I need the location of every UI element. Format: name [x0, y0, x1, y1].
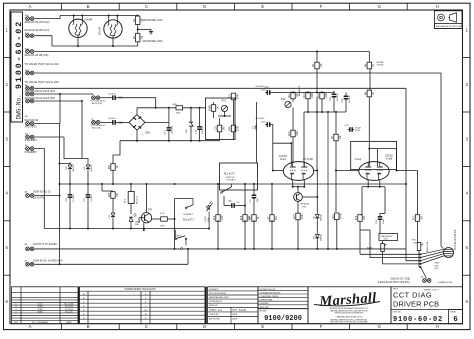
svg-text:RL1∗C1: RL1∗C1: [136, 195, 139, 204]
svg-text:PV1: PV1: [222, 100, 227, 103]
svg-text:H: H: [436, 324, 439, 329]
svg-text:TO VALVE TRAY VA3 & VA5: TO VALVE TRAY VA3 & VA5: [25, 80, 60, 84]
svg-text:22u/50s: 22u/50s: [349, 96, 351, 103]
svg-text:DRAWN: DRAWN: [209, 309, 217, 312]
svg-text:10K: 10K: [421, 215, 423, 220]
svg-text:(H2): (H2): [435, 268, 439, 270]
svg-text:1S-L-BL: 1S-L-BL: [65, 311, 74, 313]
svg-text:MODEL: MODEL: [260, 311, 268, 313]
svg-text:UNSPECIFIED HOLE DATA: UNSPECIFIED HOLE DATA: [124, 288, 156, 291]
svg-text:1N4007: 1N4007: [321, 213, 323, 221]
svg-text:C20: C20: [252, 128, 257, 130]
svg-text:9100-63-02: 9100-63-02: [25, 118, 39, 122]
svg-text:9100-62-02 15: 9100-62-02 15: [33, 190, 51, 194]
svg-text:TR1: TR1: [148, 209, 153, 212]
svg-text:ECC83: ECC83: [385, 155, 393, 157]
svg-text:STANDBY: STANDBY: [25, 138, 38, 142]
svg-text:& 9100-60-02 SHT2 VR3 (H6): & 9100-60-02 SHT2 VR3 (H6): [378, 281, 410, 284]
svg-text:(W): (W): [414, 242, 418, 244]
svg-text:PV2: PV2: [281, 98, 286, 101]
svg-text:ECC# NUMBER: ECC# NUMBER: [32, 322, 48, 324]
svg-text:H: H: [436, 4, 439, 9]
svg-text:SCN (F4): SCN (F4): [33, 195, 44, 199]
svg-text:DATE: DATE: [232, 309, 238, 312]
svg-text:R10: R10: [318, 93, 320, 98]
svg-text:1K: 1K: [373, 64, 375, 67]
svg-text:270K: 270K: [302, 213, 304, 219]
svg-text:E: E: [261, 4, 264, 9]
svg-text:-: -: [131, 133, 132, 136]
svg-text:1N4007: 1N4007: [73, 164, 75, 172]
svg-text:SHT2: SHT2: [435, 263, 441, 265]
svg-text:+35 (G5): +35 (G5): [172, 126, 174, 135]
svg-text:G: G: [378, 324, 381, 329]
svg-text:1N4007: 1N4007: [321, 233, 323, 241]
svg-text:270K: 270K: [237, 125, 239, 131]
svg-text:M: M: [145, 310, 147, 312]
svg-text:RL1∗CT3: RL1∗CT3: [224, 173, 235, 176]
svg-text:R26: R26: [230, 126, 232, 131]
svg-text:© MARSHALL AMPLIFICATION PLC: © MARSHALL AMPLIFICATION PLC: [335, 315, 363, 318]
svg-text:AV10 (F4): AV10 (F4): [92, 102, 102, 105]
svg-text:A.S.: A.S.: [218, 309, 223, 312]
svg-text:10u/50s: 10u/50s: [337, 94, 339, 101]
svg-text:B: B: [87, 4, 90, 9]
svg-text:DRIVER PCB: DRIVER PCB: [393, 300, 439, 309]
svg-text:F: F: [320, 324, 323, 329]
svg-text:DATE: DATE: [232, 318, 238, 321]
svg-text:E: E: [261, 324, 264, 329]
svg-text:1K8: 1K8: [223, 126, 225, 131]
svg-text:100K: 100K: [222, 215, 224, 221]
svg-text:86B6: 86B6: [37, 311, 43, 313]
svg-text:D: D: [203, 4, 206, 9]
svg-text:10u/63s: 10u/63s: [202, 127, 204, 134]
svg-text:1N4007: 1N4007: [91, 164, 93, 172]
svg-text:G: G: [378, 4, 381, 9]
svg-text:R18: R18: [241, 215, 243, 220]
svg-text:SURFACE: SURFACE: [209, 288, 219, 291]
svg-text:R27: R27: [109, 164, 111, 169]
svg-text:STANDBY: STANDBY: [25, 150, 38, 154]
svg-text:9100-62-02 16 RED (F4): 9100-62-02 16 RED (F4): [33, 259, 63, 263]
svg-text:R17: R17: [414, 215, 416, 220]
svg-text:9100-62-02 (G4,F4): 9100-62-02 (G4,F4): [455, 229, 457, 250]
svg-text:PRESENCE: PRESENCE: [381, 236, 394, 238]
svg-text:9100-63-02 AV5 (F4): 9100-63-02 AV5 (F4): [25, 28, 50, 32]
svg-text:ISSUE: ISSUE: [450, 311, 457, 313]
svg-text:REPRODUCED WITHOUT PERMISSION: REPRODUCED WITHOUT PERMISSION: [335, 313, 364, 315]
svg-text:F: F: [320, 4, 323, 9]
svg-text:10K: 10K: [321, 63, 323, 68]
svg-text:DATE: DATE: [232, 313, 238, 316]
svg-text:DB1: DB1: [146, 132, 151, 135]
svg-text:9100-61-02 2B (G5): 9100-61-02 2B (G5): [25, 53, 49, 57]
svg-text:MATERIAL AND SIZE: MATERIAL AND SIZE: [209, 296, 229, 299]
svg-text:V2∗M4: V2∗M4: [99, 26, 102, 35]
svg-text:G: G: [83, 318, 85, 320]
svg-text:15K: 15K: [142, 35, 144, 40]
svg-text:AV1 (G4): AV1 (G4): [92, 127, 101, 130]
svg-text:R18: R18: [230, 94, 232, 99]
svg-text:C: C: [145, 4, 148, 9]
svg-text:MPSA13: MPSA13: [301, 203, 310, 206]
svg-text:R1B: R1B: [435, 265, 440, 267]
svg-text:100K: 100K: [326, 92, 328, 98]
svg-text:1K: 1K: [373, 92, 375, 95]
svg-text:9200 MODEL ONLY: 9200 MODEL ONLY: [143, 20, 164, 22]
svg-text:TO VALVE TRAY VA4 & VA2: TO VALVE TRAY VA4 & VA2: [25, 62, 60, 66]
svg-text:9100-63-02 AV5 (F2): 9100-63-02 AV5 (F2): [25, 20, 50, 24]
svg-text:CCT DIAG: CCT DIAG: [393, 291, 432, 300]
svg-text:10u/50s: 10u/50s: [108, 94, 115, 96]
svg-text:+HT500V: +HT500V: [255, 118, 265, 120]
svg-text:8-6-93: 8-6-93: [239, 309, 247, 312]
svg-text:1K: 1K: [258, 216, 260, 219]
svg-text:B25K (LIN): B25K (LIN): [427, 241, 429, 252]
svg-text:6: 6: [453, 316, 458, 324]
svg-text:470pF: 470pF: [355, 128, 362, 130]
svg-text:BALANCE: BALANCE: [298, 85, 301, 96]
svg-text:100K: 100K: [312, 92, 314, 98]
svg-text:47u/63s: 47u/63s: [73, 195, 75, 202]
svg-text:SCREEN(S) N: SCREEN(S) N: [209, 301, 223, 303]
svg-text:C21: C21: [265, 87, 270, 89]
svg-text:RL1∗CT1: RL1∗CT1: [183, 219, 195, 222]
svg-text:22u/50s: 22u/50s: [108, 118, 115, 120]
svg-text:V1∗M4: V1∗M4: [84, 19, 93, 22]
svg-text:9100-60-02: 9100-60-02: [393, 316, 443, 324]
svg-text:10K: 10K: [117, 192, 119, 197]
svg-text:+30B: +30B: [172, 104, 178, 106]
svg-text:R/A: R/A: [135, 223, 139, 226]
svg-text:ECC83: ECC83: [279, 156, 287, 158]
svg-text:V2∗A: V2∗A: [280, 158, 287, 161]
svg-text:100K: 100K: [297, 130, 299, 136]
svg-text:OXIDE: OXIDE: [377, 65, 384, 67]
svg-text:THIRD ANGLE PROJECTION: THIRD ANGLE PROJECTION: [436, 25, 462, 28]
svg-text:CHECKED: CHECKED: [209, 314, 219, 316]
svg-text:R19: R19: [214, 215, 216, 220]
svg-text:R13: R13: [304, 93, 306, 98]
svg-text:B: B: [87, 324, 90, 329]
svg-text:CONTACT: CONTACT: [183, 213, 194, 216]
svg-text:9200 MODEL ONLY: 9200 MODEL ONLY: [143, 41, 164, 43]
svg-text:A: A: [29, 4, 32, 9]
svg-text:+HT500V: +HT500V: [255, 86, 265, 88]
svg-text:C18: C18: [216, 126, 218, 131]
svg-text:R23: R23: [109, 192, 111, 197]
svg-text:J: J: [145, 298, 146, 300]
svg-text:4.7K: 4.7K: [160, 213, 165, 215]
svg-text:DATE: DATE: [66, 321, 72, 324]
svg-text:270K: 270K: [237, 93, 239, 99]
svg-text:100n: 100n: [383, 218, 385, 224]
svg-text:(CHASE MTH): (CHASE MTH): [438, 281, 453, 284]
svg-text:10K: 10K: [340, 135, 342, 140]
svg-text:METAL: METAL: [377, 61, 385, 64]
svg-text:DWG.No.: DWG.No.: [16, 94, 23, 119]
svg-text:270K: 270K: [341, 213, 343, 219]
svg-text:1K: 1K: [217, 106, 219, 109]
svg-text:APPROVED: APPROVED: [209, 318, 221, 321]
svg-text:C: C: [145, 324, 148, 329]
svg-text:PROCESS FINISH: PROCESS FINISH: [209, 293, 226, 295]
svg-text:D: D: [203, 324, 206, 329]
svg-text:47u/63s: 47u/63s: [91, 195, 93, 202]
svg-text:1K5: 1K5: [364, 215, 366, 220]
svg-text:9100-60-02: 9100-60-02: [15, 20, 24, 89]
svg-text:R21: R21: [333, 213, 335, 218]
svg-text:LED1: LED1: [205, 215, 207, 221]
svg-text:V1∗A: V1∗A: [355, 158, 362, 161]
svg-text:R16: R16: [356, 215, 358, 220]
svg-text:R/A: R/A: [207, 217, 210, 221]
svg-text:R12: R12: [289, 131, 291, 136]
svg-text:CONTACT: CONTACT: [226, 178, 237, 181]
svg-text:REMOVE: REMOVE: [209, 305, 218, 307]
svg-text:DWG No.: DWG No.: [393, 311, 402, 313]
svg-text:/250V: /250V: [355, 130, 361, 132]
svg-text:A3 V2∗B: A3 V2∗B: [303, 158, 313, 161]
svg-text:R14B: R14B: [210, 105, 212, 111]
svg-text:AV13 (F5): AV13 (F5): [25, 125, 37, 129]
svg-text:9100/9200: 9100/9200: [264, 315, 302, 323]
svg-text:1K: 1K: [117, 165, 119, 168]
svg-text:R15: R15: [294, 214, 296, 219]
svg-text:OUTPUT TX 4OHM: OUTPUT TX 4OHM: [33, 242, 57, 246]
svg-text:V1∗B: V1∗B: [386, 157, 393, 160]
svg-text:A: A: [29, 324, 32, 329]
